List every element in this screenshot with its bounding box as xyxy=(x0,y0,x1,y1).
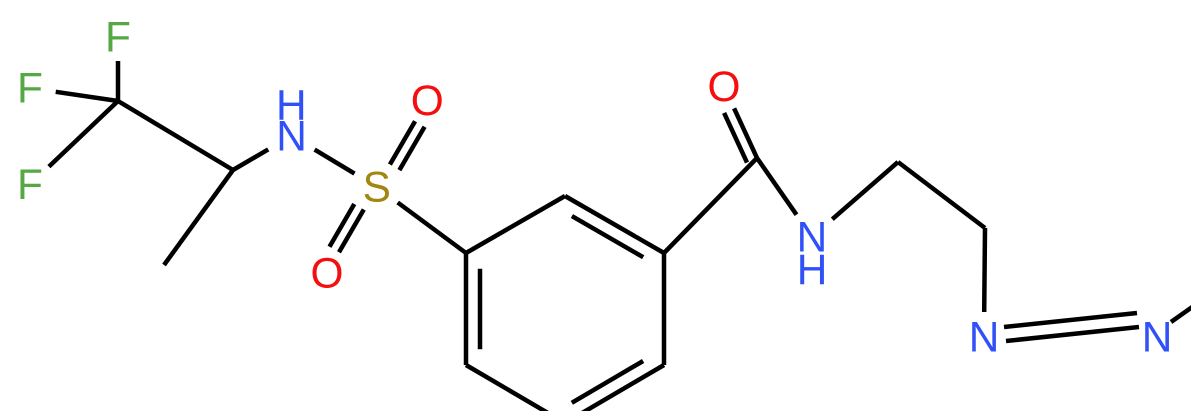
bond C2-methyl xyxy=(164,170,233,265)
svg-text:F: F xyxy=(17,161,43,208)
svg-text:F: F xyxy=(105,14,131,61)
ring edge E-D xyxy=(662,253,667,365)
bond C1-F lower-left xyxy=(49,101,118,167)
svg-text:S: S xyxy=(363,164,391,211)
double bond S=O upper xyxy=(390,121,415,164)
svg-text:N: N xyxy=(969,314,1000,361)
svg-text:F: F xyxy=(17,65,43,112)
svg-text:N: N xyxy=(1142,314,1173,361)
svg-text:O: O xyxy=(311,250,344,297)
bond C2-N sulfonamide xyxy=(233,149,268,170)
ring edge D-bottom (aromatic double, clipped) xyxy=(565,365,664,411)
svg-text:O: O xyxy=(708,63,741,110)
bond V1-V2 xyxy=(898,162,985,228)
bond C1-F top xyxy=(116,61,121,101)
svg-text:O: O xyxy=(411,77,444,124)
ring edge A-B (aromatic double) xyxy=(464,253,469,365)
bond V2-N ring xyxy=(982,228,987,312)
bond S-ring A xyxy=(398,203,466,254)
ring edge A-T xyxy=(466,196,565,253)
double bond S=O lower xyxy=(339,210,364,253)
bond C1-C2 xyxy=(118,101,233,170)
bond C1-F upper-left xyxy=(56,92,118,101)
bond N amide - CH2 V1 xyxy=(832,162,898,219)
double bond C9=O xyxy=(734,108,757,158)
bond C9-N amide xyxy=(757,158,797,215)
bond N-S xyxy=(315,150,355,174)
double line between ring N atoms xyxy=(1004,313,1137,327)
ring edge B-bottom (clipped) xyxy=(466,365,565,411)
bond from right ring N (clipped at edge) xyxy=(1171,293,1191,322)
ring edge T-E (aromatic double) xyxy=(565,196,664,253)
svg-text:N: N xyxy=(276,112,307,159)
bond ring E - carbonyl C9 xyxy=(664,158,757,253)
svg-text:H: H xyxy=(797,246,828,293)
